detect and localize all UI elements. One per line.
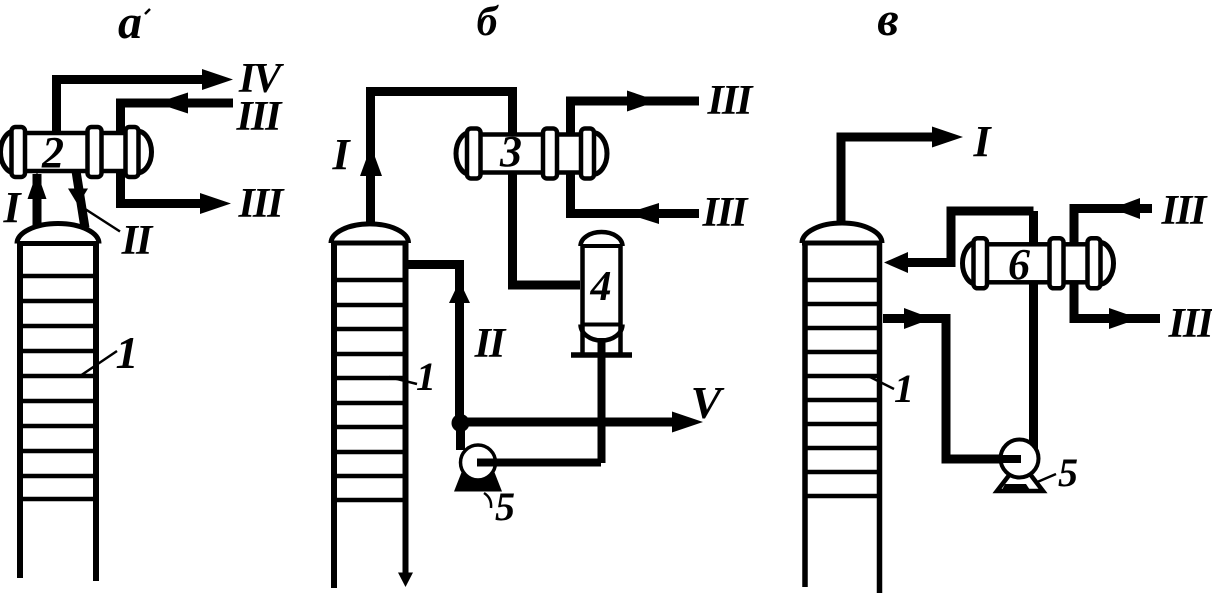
arrowhead vapor I (variant a) [28,172,47,199]
pipe reflux II into column (variant b) [406,265,460,421]
arrowhead vapor I (variant v) [932,127,963,148]
column 1 (variant v) dome [802,223,882,243]
arrowhead III outlet (variant v) [1109,308,1139,329]
arrowhead III inlet (variant b) [626,203,659,224]
pipe III coolant inlet (variant v) [1074,209,1152,245]
arrowhead vapor I (variant b) [360,146,382,176]
pipe overhead vapor I (variant v) [841,137,934,224]
pipe III coolant inlet (variant a) [121,103,234,132]
pump 5 base (variant b) [454,466,502,492]
pump 5 (variant v) [1001,440,1039,478]
svg-text:III: III [1160,188,1208,234]
svg-text:I: I [331,130,351,179]
pipe condensate from condenser 3 to vessel 4 [513,173,581,286]
svg-text:1: 1 [116,327,139,378]
pipe circulating draw-off to pump 5 (variant v) [883,319,1019,460]
leader line 5 (variant v) [1035,474,1056,483]
arrowhead III inlet (variant v) [1112,198,1140,219]
pipe reflux II from condenser 2 to column 1 [76,171,85,228]
leader line II (variant a) [82,207,120,232]
pipe distillate V [460,418,673,427]
svg-text:6: 6 [1008,240,1030,289]
pipe III coolant outlet (variant b) [571,101,700,134]
pump 5 suction pipe (variant v) [946,455,1021,463]
arrowhead draw-off (variant v) [904,308,932,329]
pipe junction to pump 5 (variant b) [456,422,465,450]
svg-text:I: I [2,183,22,232]
leader line 1 (variant a) [80,351,117,376]
pipe circulating reflux return (variant v) [908,211,1034,263]
svg-text:III: III [237,181,285,227]
condenser 3 [456,129,607,179]
arrowhead V [672,412,703,433]
svg-text:в: в [877,0,898,46]
column 1 (variant v) trays [806,280,878,496]
arrowhead reflux II (variant b) [449,281,470,303]
svg-text:III: III [706,78,754,124]
arrowhead III outlet (variant a) [200,193,231,214]
leader line 5 (variant b) [484,493,491,508]
pipe vapor I from column 1 to condenser 2 [33,174,42,226]
pump 5 base shading (variant v) [1002,484,1030,490]
condenser 2 [0,127,151,177]
column 1 (variant b) walls [334,242,406,588]
column 1 dome [17,224,99,244]
svg-text:III: III [1167,301,1212,347]
pipe III coolant outlet (variant a) [121,172,202,204]
cooler 6 [963,238,1114,288]
pump 5 (variant b) [461,445,496,480]
svg-text:I: I [972,117,992,166]
arrowhead bottoms outlet (variant b) [398,573,413,588]
svg-text:1: 1 [416,354,436,399]
vessel 4 walls [583,245,621,353]
svg-text:а: а [118,0,142,49]
column 1 (variant b) dome [331,224,409,243]
column 1 (variant a) walls [20,242,96,581]
pipe III coolant outlet (variant v) [1074,283,1160,319]
svg-text:3: 3 [499,127,522,176]
vessel 4 bottom dish [581,323,623,327]
vessel 4 base [571,352,632,358]
column 1 trays [18,276,98,499]
pump 5 discharge pipe (variant b) [477,459,601,467]
svg-text:II: II [474,321,507,367]
tick mark near label a [145,9,150,14]
svg-text:5: 5 [1058,450,1078,495]
svg-text:III: III [701,190,749,236]
svg-text:1: 1 [894,366,914,411]
arrowhead reflux II (variant a) [68,189,88,206]
pump 5 base (variant v) [997,461,1043,491]
pipe IV from condenser 2 top [57,80,205,134]
column 1 (variant v) walls [805,242,880,593]
leader line 1 (variant b) [389,377,417,384]
arrowhead III outlet (variant b) [627,91,658,112]
svg-text:б: б [477,0,500,45]
pipe through cooler 6 to pump 5 (variant v) [1029,211,1038,450]
vessel 4 dome [581,232,623,246]
column 1 (variant b) trays [335,280,404,500]
svg-text:2: 2 [41,128,64,177]
arrowhead III inlet (variant a) [156,93,188,114]
leader line 1 (variant v) [868,376,894,389]
pipe III coolant inlet (variant b) [571,173,700,214]
svg-text:III: III [235,94,283,140]
junction node (variant b) [452,414,470,432]
pipe vessel 4 outlet to pump 5 [598,338,606,463]
svg-text:II: II [121,218,154,264]
arrowhead IV [202,69,233,90]
svg-text:5: 5 [495,484,515,529]
svg-text:V: V [691,377,725,428]
arrowhead reflux return into column (variant v) [884,252,908,273]
svg-text:4: 4 [590,264,612,310]
pipe overhead vapor (variant b) [371,92,513,225]
